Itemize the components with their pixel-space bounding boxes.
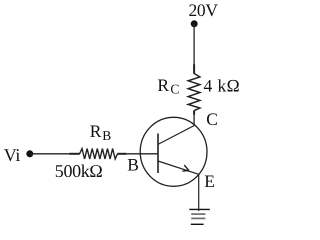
- collector diagonal lead: [158, 126, 194, 145]
- wire RB right to base bar: [126, 153, 158, 155]
- svg-text:Vi: Vi: [4, 145, 21, 165]
- ground bar 3: [191, 217, 205, 219]
- resistor RB (500kOhm) zigzag: [80, 149, 118, 159]
- resistor RC (4 kOhm) zigzag: [188, 74, 200, 111]
- node 20V terminal dot: [191, 20, 198, 27]
- transistor base bar: [157, 134, 159, 174]
- wire Vi dot to RB left: [30, 153, 70, 155]
- resistor RC top lead: [193, 64, 195, 73]
- svg-text:4 kΩ: 4 kΩ: [204, 76, 240, 96]
- resistor RC bottom lead: [193, 110, 195, 114]
- svg-text:B: B: [102, 128, 111, 143]
- svg-text:500kΩ: 500kΩ: [55, 161, 103, 181]
- svg-text:C: C: [206, 109, 218, 129]
- svg-text:B: B: [127, 155, 139, 175]
- emitter arrowhead barb upper: [184, 165, 189, 170]
- ground bar 4: [191, 223, 204, 225]
- transistor Q1 body circle: [140, 117, 207, 186]
- input terminal dot: [26, 150, 33, 157]
- svg-text:20V: 20V: [189, 0, 219, 20]
- emitter arrowhead barb lower: [182, 170, 189, 173]
- svg-text:R: R: [90, 121, 102, 141]
- svg-text:R: R: [157, 75, 169, 95]
- ground bar 1: [189, 208, 210, 210]
- wire emitter to ground: [198, 174, 200, 211]
- wire supply dot to RC top: [193, 24, 195, 65]
- svg-text:E: E: [204, 171, 215, 191]
- resistor RB left lead: [69, 153, 80, 155]
- wire RC bottom to collector junction: [193, 115, 195, 127]
- ground bar 2: [191, 213, 205, 215]
- emitter diagonal lead: [158, 161, 199, 174]
- svg-text:C: C: [170, 82, 179, 97]
- resistor RB right lead: [117, 153, 126, 155]
